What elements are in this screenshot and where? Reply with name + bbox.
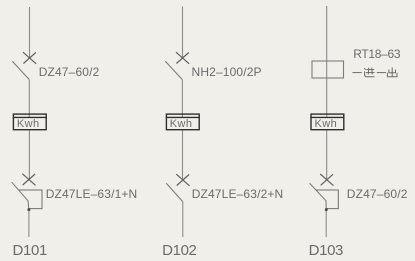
svg-text:RT18–63: RT18–63 xyxy=(353,47,401,61)
svg-text:D103: D103 xyxy=(309,242,343,259)
svg-text:D102: D102 xyxy=(162,242,196,259)
svg-text:DZ47–60/2: DZ47–60/2 xyxy=(347,187,408,201)
svg-text:Kwh: Kwh xyxy=(170,118,193,130)
svg-text:DZ47–60/2: DZ47–60/2 xyxy=(39,65,100,79)
svg-text:Kwh: Kwh xyxy=(17,118,40,130)
svg-text:DZ47LE–63/2+N: DZ47LE–63/2+N xyxy=(192,187,284,201)
svg-text:DZ47LE–63/1+N: DZ47LE–63/1+N xyxy=(46,187,138,201)
svg-text:Kwh: Kwh xyxy=(315,118,338,130)
svg-text:D101: D101 xyxy=(13,242,47,259)
svg-text:NH2–100/2P: NH2–100/2P xyxy=(192,65,262,79)
